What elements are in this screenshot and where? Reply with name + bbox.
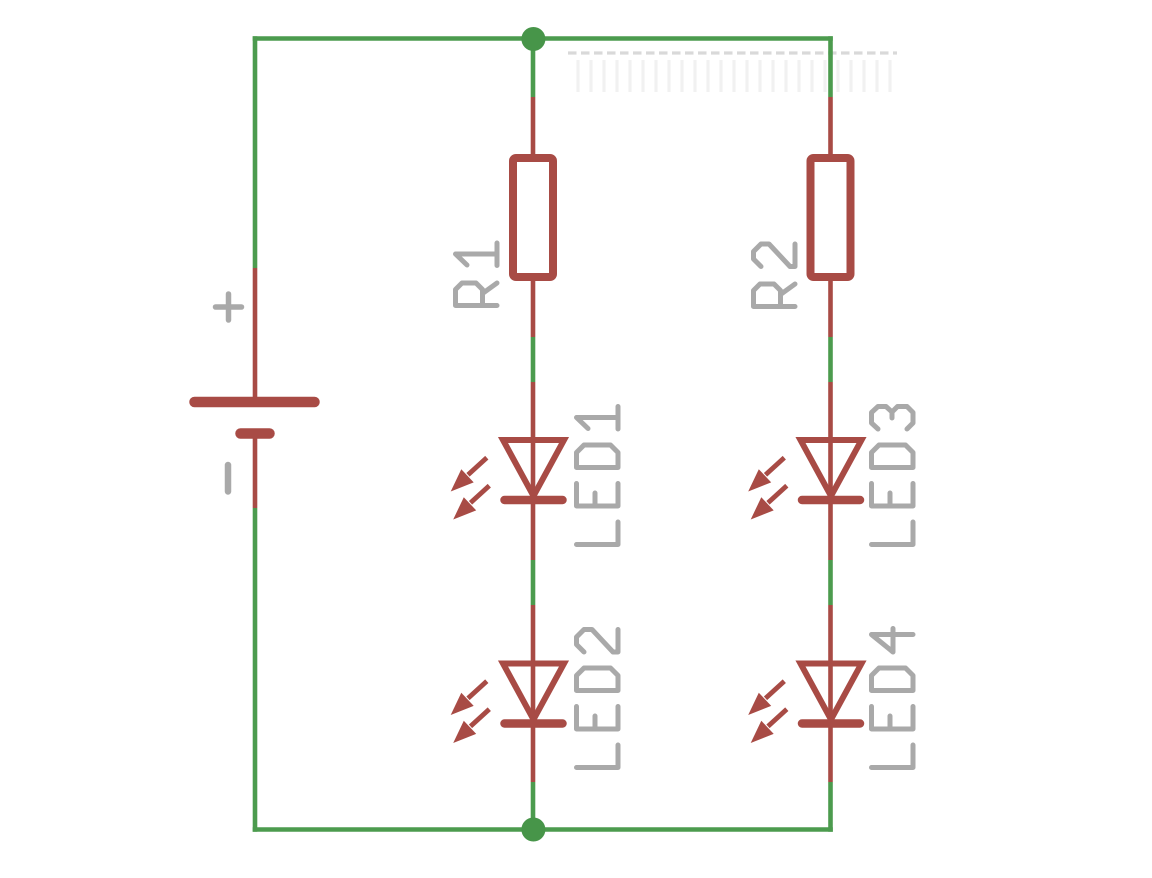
wire middle branch red above R1 [531,97,536,156]
led LED4 [748,664,861,744]
battery B1 negative plate [241,428,270,439]
wire middle branch red through LED2 [531,605,536,782]
label R1 [456,243,498,306]
wire right branch red through LED4 [828,605,833,782]
node top junction [521,27,545,51]
wire bottom horizontal [253,827,833,832]
wire left vertical red below battery [253,434,258,509]
wire left vertical green lower [253,508,258,832]
wire right branch red below R2 [828,281,833,337]
led LED1 [451,440,564,520]
wire right branch red through LED3 [828,382,833,560]
wire middle branch green mid1 [531,337,536,382]
wire middle branch green lower [531,782,536,829]
label LED4 [872,629,914,768]
label - [225,465,232,492]
resistor R1 [513,158,553,277]
wire right vertical green upper [828,36,833,97]
resistor R2 [811,158,851,277]
wire right branch green mid1 [828,337,833,382]
wire middle branch red below R1 [531,281,536,337]
wire right branch green lower [828,782,833,832]
wire left vertical green upper [253,36,258,268]
wire top horizontal [253,36,833,41]
label LED2 [577,630,619,768]
wire middle branch green mid2 [531,560,536,605]
battery B1 positive plate [195,397,315,408]
wire right branch green mid2 [828,560,833,605]
led LED3 [748,440,861,520]
wire middle branch green upper [531,39,536,97]
wire right branch red above R2 [828,97,833,156]
label LED3 [872,407,914,545]
wire middle branch red through LED1 [531,382,536,560]
label LED1 [577,407,619,545]
wire left vertical red through battery top [253,268,258,400]
label R2 [754,244,796,307]
led LED2 [451,664,564,744]
node bottom junction [521,818,545,842]
label + [216,294,242,320]
watermark dashes under top wire (decorative) [568,51,897,54]
